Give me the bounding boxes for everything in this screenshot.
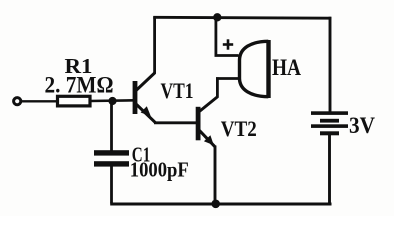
wire buzzer lower stub (216, 77, 239, 80)
wire R1 to VT1 base (90, 99, 134, 102)
wire right branch from top rail to battery (329, 17, 332, 112)
svg-text:2. 7MΩ: 2. 7MΩ (45, 72, 114, 97)
junction node base (108, 97, 116, 105)
wire node to C1 (110, 101, 113, 151)
wire VT2 collector riser (216, 77, 219, 97)
wire top junction to buzzer plus terminal (215, 18, 239, 57)
input terminal (14, 98, 21, 105)
wire battery to bottom rail (328, 135, 331, 204)
wire VT1 collector to top rail (153, 16, 156, 73)
transistor VT2 (196, 97, 218, 147)
label 1000pF (130, 157, 189, 181)
label 3V (349, 113, 375, 139)
label C1 (132, 142, 151, 166)
resistor R1 (58, 96, 91, 106)
wire C1 to bottom rail (110, 166, 113, 204)
label VT1 (161, 78, 194, 103)
junction dot on top rail (213, 13, 221, 21)
svg-text:VT1: VT1 (161, 78, 194, 103)
buzzer HA (240, 40, 269, 98)
svg-text:VT2: VT2 (221, 116, 257, 141)
battery 3V (311, 111, 348, 135)
label VT2 (221, 116, 257, 141)
svg-text:1000pF: 1000pF (130, 157, 189, 181)
polarity plus mark (223, 39, 233, 49)
svg-text:3V: 3V (349, 113, 375, 139)
bottom rail wire (110, 203, 331, 206)
wire VT1 emitter to VT2 base (154, 121, 197, 124)
junction dot on bottom rail (211, 200, 220, 209)
wire VT2 emitter to bottom rail (214, 146, 217, 204)
label R1 (65, 54, 93, 78)
label 2.7M ohm (45, 72, 114, 97)
top rail wire (153, 16, 331, 20)
label HA (272, 55, 301, 81)
capacitor C1 (94, 150, 129, 166)
transistor VT1 (133, 73, 156, 123)
svg-text:HA: HA (272, 55, 301, 81)
wire input to R1 (21, 100, 57, 102)
